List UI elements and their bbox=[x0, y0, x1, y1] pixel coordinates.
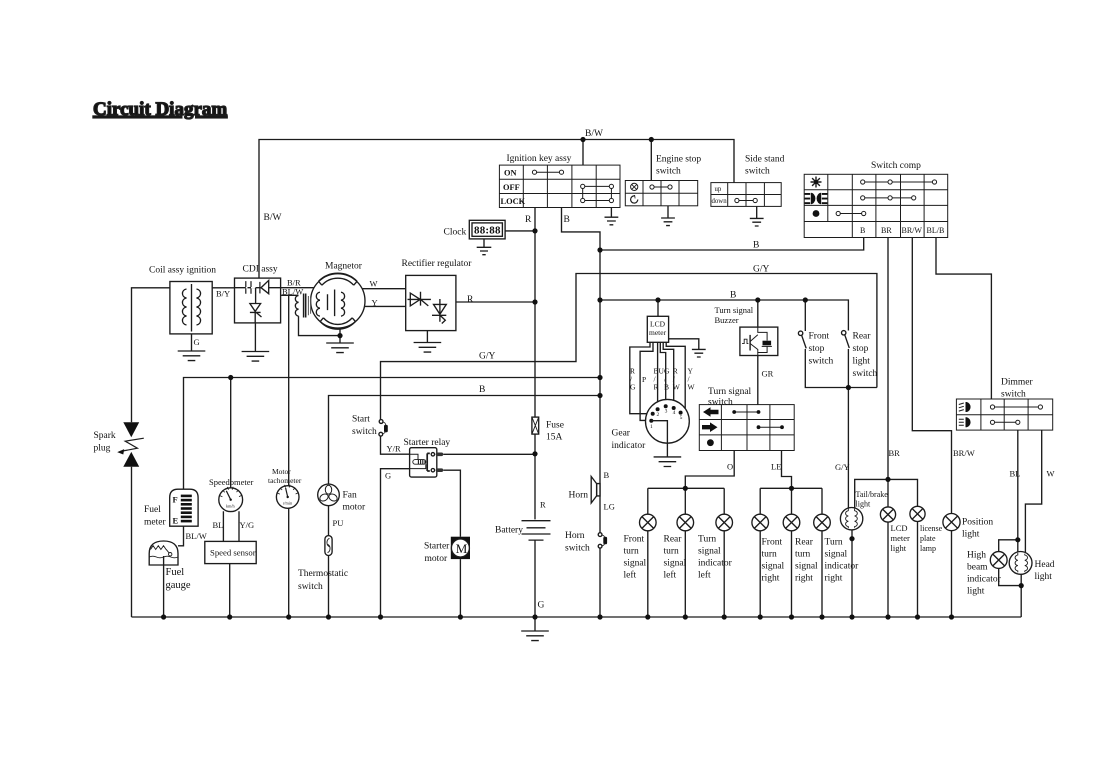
svg-text:High: High bbox=[967, 551, 986, 561]
svg-text:BR: BR bbox=[881, 226, 892, 235]
clock bbox=[469, 220, 505, 239]
svg-text:Gear: Gear bbox=[612, 429, 631, 439]
start switch bbox=[379, 420, 388, 437]
svg-text:turn: turn bbox=[762, 550, 778, 560]
svg-text:switch: switch bbox=[708, 398, 733, 408]
LCD meter wires to gear indicator bbox=[630, 342, 685, 420]
turn signal indicator right lamp bbox=[814, 514, 831, 531]
engine stop switch ground bbox=[661, 206, 675, 226]
svg-text:signal: signal bbox=[825, 550, 848, 560]
wire G/Y from stop switches to start switch bbox=[381, 274, 877, 421]
svg-text:B: B bbox=[753, 241, 759, 251]
svg-text:BL: BL bbox=[1010, 469, 1021, 479]
svg-text:signal: signal bbox=[698, 547, 721, 557]
svg-text:meter: meter bbox=[649, 328, 667, 337]
svg-text:G: G bbox=[538, 601, 545, 611]
svg-text:Rear: Rear bbox=[853, 332, 872, 342]
svg-text:light: light bbox=[967, 587, 985, 597]
rectifier regulator bbox=[406, 275, 456, 330]
svg-text:switch: switch bbox=[352, 427, 377, 437]
svg-text:Y: Y bbox=[372, 298, 378, 308]
svg-text:meter: meter bbox=[891, 533, 911, 543]
svg-text:signal: signal bbox=[762, 562, 785, 572]
CDI assy bbox=[235, 278, 281, 323]
svg-text:Tail/brake: Tail/brake bbox=[856, 490, 889, 499]
svg-text:Start: Start bbox=[352, 415, 370, 425]
wire W magnetor to rectifier bbox=[340, 288, 406, 290]
turn signal switch off symbol bbox=[707, 439, 714, 446]
svg-text:LG: LG bbox=[604, 502, 615, 512]
switch comp off symbol bbox=[813, 210, 820, 217]
label G/B bbox=[664, 367, 670, 392]
turn signal buzzer bbox=[740, 327, 778, 355]
svg-text:Switch comp: Switch comp bbox=[871, 161, 921, 171]
wire stop switches lower box and G/Y to tail light bbox=[805, 349, 877, 508]
svg-text:light: light bbox=[891, 543, 907, 553]
svg-text:Starter: Starter bbox=[424, 542, 450, 552]
wire tail light to bus bbox=[851, 530, 853, 617]
wire battery to ground bus bbox=[534, 540, 536, 631]
svg-text:beam: beam bbox=[967, 563, 988, 573]
svg-text:E: E bbox=[173, 516, 179, 526]
svg-text:W: W bbox=[370, 279, 378, 289]
side stand switch ground bbox=[750, 206, 764, 226]
svg-text:G: G bbox=[630, 383, 636, 392]
motor tachometer bbox=[276, 485, 299, 509]
switch comp lights-on symbol bbox=[811, 177, 822, 188]
title: Circuit Diagram bbox=[93, 99, 227, 120]
svg-text:B: B bbox=[564, 215, 570, 225]
svg-text:R: R bbox=[654, 383, 659, 392]
svg-text:4: 4 bbox=[673, 410, 676, 416]
clock ground bbox=[477, 239, 492, 255]
svg-text:Head: Head bbox=[1035, 560, 1055, 570]
svg-text:Position: Position bbox=[962, 518, 993, 528]
svg-text:Rear: Rear bbox=[664, 535, 683, 545]
fan motor bbox=[318, 484, 340, 506]
rear turn signal right lamp bbox=[783, 514, 800, 531]
wire B to LCD meter, buzzer, stop switches (y=300) bbox=[600, 300, 848, 331]
ignition key assy switch table bbox=[499, 165, 620, 207]
svg-text:BL: BL bbox=[213, 520, 224, 530]
svg-text:88:88: 88:88 bbox=[474, 225, 501, 237]
svg-text:Turn signal: Turn signal bbox=[708, 387, 752, 397]
svg-text:LE: LE bbox=[771, 462, 781, 472]
front turn signal left lamp bbox=[640, 514, 657, 531]
gear indicator ground bbox=[654, 457, 682, 467]
svg-text:G/Y: G/Y bbox=[835, 462, 850, 472]
svg-text:Y/G: Y/G bbox=[240, 520, 255, 530]
svg-text:right: right bbox=[762, 574, 780, 584]
svg-text:Side stand: Side stand bbox=[745, 155, 785, 165]
svg-text:switch: switch bbox=[745, 167, 770, 177]
svg-text:Motor: Motor bbox=[272, 467, 291, 476]
svg-text:LOCK: LOCK bbox=[501, 197, 526, 206]
wire BL/B switch comp to dimmer switch bbox=[936, 238, 991, 400]
ground bus bottom bbox=[132, 616, 1022, 618]
fuel gauge bbox=[149, 541, 178, 565]
speed sensor bbox=[205, 541, 256, 563]
svg-text:Speedometer: Speedometer bbox=[209, 477, 254, 487]
svg-text:turn: turn bbox=[624, 547, 640, 557]
svg-text:switch: switch bbox=[656, 167, 681, 177]
svg-text:left: left bbox=[698, 570, 711, 581]
wire B net (key col3 down, long B buses) bbox=[562, 208, 601, 618]
svg-text:indicator: indicator bbox=[612, 441, 647, 451]
wire head light / high beam bottoms to bus bbox=[999, 568, 1022, 617]
wire W dimmer to head light bbox=[1025, 430, 1041, 553]
svg-text:G: G bbox=[194, 337, 200, 347]
svg-text:B/Y: B/Y bbox=[216, 289, 230, 299]
svg-text:down: down bbox=[712, 198, 728, 205]
dimmer high beam symbol bbox=[966, 402, 971, 412]
wire R net (key col2 / clock / rectifier / fuse / battery) bbox=[443, 208, 535, 520]
svg-text:LCD: LCD bbox=[891, 523, 908, 533]
coil assy ground bbox=[178, 334, 206, 361]
svg-text:light: light bbox=[962, 530, 980, 540]
svg-text:Turn: Turn bbox=[698, 535, 716, 545]
switch comp table bbox=[804, 174, 948, 237]
fuel meter bbox=[170, 489, 198, 526]
svg-text:B/W: B/W bbox=[585, 129, 603, 139]
svg-text:Rear: Rear bbox=[795, 538, 814, 548]
svg-text:light: light bbox=[853, 357, 871, 367]
wire B gauge feed (y=377.5) bbox=[184, 378, 601, 490]
side stand switch table bbox=[711, 183, 781, 207]
wire right turn lamps distribution bbox=[760, 488, 822, 617]
svg-text:Spark: Spark bbox=[94, 431, 116, 441]
svg-text:meter: meter bbox=[144, 518, 166, 528]
svg-text:B: B bbox=[604, 470, 610, 480]
svg-text:Speed sensor: Speed sensor bbox=[210, 548, 256, 558]
svg-text:Fuel: Fuel bbox=[166, 567, 185, 578]
svg-text:left: left bbox=[624, 570, 637, 581]
ignition key assy ground bbox=[605, 208, 619, 225]
svg-text:Fan: Fan bbox=[343, 491, 358, 501]
battery bbox=[522, 454, 551, 540]
LCD meter bbox=[647, 316, 668, 342]
tail/brake light bbox=[840, 508, 862, 530]
svg-text:plate: plate bbox=[920, 534, 936, 543]
svg-text:turn: turn bbox=[795, 550, 811, 560]
svg-text:r/min: r/min bbox=[283, 501, 293, 506]
svg-text:tachometer: tachometer bbox=[268, 476, 302, 485]
svg-text:motor: motor bbox=[343, 503, 367, 513]
wire G relay to ground bus bbox=[381, 469, 410, 617]
svg-text:W: W bbox=[673, 383, 681, 392]
svg-text:Clock: Clock bbox=[444, 228, 467, 238]
svg-text:Front: Front bbox=[762, 538, 783, 548]
svg-text:signal: signal bbox=[795, 562, 818, 572]
svg-text:BR: BR bbox=[889, 448, 901, 458]
svg-text:Magnetor: Magnetor bbox=[325, 262, 363, 272]
svg-text:BL/B: BL/B bbox=[927, 226, 945, 235]
svg-text:light: light bbox=[856, 500, 871, 509]
svg-text:R: R bbox=[467, 295, 474, 305]
svg-text:3: 3 bbox=[665, 409, 668, 415]
wire left turn lamps distribution bbox=[648, 488, 724, 617]
rear turn signal left lamp bbox=[677, 514, 694, 531]
starter motor bbox=[451, 537, 470, 559]
svg-text:2: 2 bbox=[657, 412, 660, 418]
svg-text:M: M bbox=[456, 541, 468, 556]
svg-text:Starter relay: Starter relay bbox=[404, 438, 451, 448]
wire buzzer to turn signal switch (GR) bbox=[757, 354, 759, 404]
wire starter relay to starter motor bbox=[443, 470, 460, 617]
svg-text:switch: switch bbox=[565, 544, 590, 554]
dimmer switch table bbox=[956, 399, 1052, 430]
turn signal indicator left lamp bbox=[716, 514, 733, 531]
wire fuel meter to fuel gauge, gauge to bus bbox=[164, 526, 184, 617]
wire B/Y coil to CDI bbox=[212, 287, 234, 289]
LCD meter light lamp bbox=[880, 507, 895, 522]
svg-text:right: right bbox=[795, 574, 813, 584]
svg-text:light: light bbox=[1035, 572, 1053, 582]
wire B/W kill line (CDI to ignition key, engine stop, side stand) bbox=[259, 140, 734, 279]
svg-text:lamp: lamp bbox=[920, 544, 936, 553]
svg-text:O: O bbox=[727, 462, 733, 472]
spark plug bbox=[117, 422, 144, 467]
coil assy ignition bbox=[170, 282, 212, 334]
svg-text:BR/W: BR/W bbox=[953, 448, 975, 458]
svg-text:indicator: indicator bbox=[698, 559, 733, 569]
wire magnetor internal grounds bbox=[299, 316, 341, 343]
svg-text:switch: switch bbox=[853, 369, 878, 379]
svg-text:Fuse: Fuse bbox=[546, 421, 564, 431]
svg-text:Front: Front bbox=[624, 535, 645, 545]
svg-text:stop: stop bbox=[809, 344, 825, 354]
svg-text:license: license bbox=[920, 524, 943, 533]
svg-text:B/W: B/W bbox=[264, 213, 282, 223]
engine stop switch table bbox=[625, 181, 697, 206]
wire spark plug / coil assy primary bbox=[132, 288, 170, 617]
label R/W bbox=[673, 367, 681, 392]
fuse 15A bbox=[532, 417, 539, 434]
svg-text:Turn: Turn bbox=[825, 538, 843, 548]
wire Y/R start switch to relay coil bbox=[381, 436, 410, 455]
head light bbox=[1009, 552, 1032, 575]
speedometer bbox=[219, 487, 243, 512]
turn signal switch right-arrow symbol bbox=[702, 422, 718, 432]
svg-text:P: P bbox=[642, 375, 646, 384]
wire fan motor / thermostatic switch to bus bbox=[328, 505, 330, 617]
svg-text:B: B bbox=[664, 383, 669, 392]
svg-text:Thermostatic: Thermostatic bbox=[298, 569, 348, 579]
wire speedometer to speed sensor to bus bbox=[223, 511, 239, 617]
turn signal switch table bbox=[699, 405, 794, 451]
horn switch bbox=[598, 533, 607, 548]
label LCD meter wires R/G bbox=[630, 367, 636, 392]
wire turn signal switch left output O bbox=[685, 451, 734, 489]
svg-text:switch: switch bbox=[1001, 390, 1026, 400]
svg-text:W: W bbox=[1047, 469, 1055, 479]
LCD meter ground wire bbox=[669, 339, 706, 357]
svg-text:PU: PU bbox=[333, 518, 344, 528]
svg-text:1: 1 bbox=[650, 424, 653, 430]
wire B fan/start feed (y=395.5) bbox=[329, 396, 601, 485]
thermostatic switch bbox=[325, 536, 332, 556]
CDI assy ground bbox=[242, 323, 270, 361]
switch comp headlight symbol bbox=[805, 193, 828, 204]
wire BL/W CDI to pickup coil and motor tachometer bbox=[281, 295, 299, 617]
svg-text:F: F bbox=[173, 495, 178, 505]
wire B/R CDI to magnetor winding bbox=[281, 288, 320, 293]
svg-text:Coil assy ignition: Coil assy ignition bbox=[149, 266, 216, 276]
svg-text:Horn: Horn bbox=[565, 531, 585, 541]
svg-text:indicator: indicator bbox=[825, 562, 860, 572]
rectifier regulator ground bbox=[414, 331, 442, 353]
svg-text:switch: switch bbox=[298, 582, 323, 592]
svg-text:Dimmer: Dimmer bbox=[1001, 378, 1033, 388]
svg-text:R: R bbox=[525, 215, 532, 225]
high beam indicator light lamp bbox=[990, 552, 1007, 569]
svg-text:G/Y: G/Y bbox=[753, 265, 770, 275]
svg-text:Engine stop: Engine stop bbox=[656, 155, 701, 165]
label BU/R bbox=[654, 367, 665, 392]
horn bbox=[591, 477, 600, 504]
front turn signal right lamp bbox=[752, 514, 769, 531]
svg-text:Battery: Battery bbox=[495, 526, 523, 536]
main ground under battery bbox=[521, 631, 549, 641]
wire LCD meter light / license plate lamp bottoms bbox=[888, 521, 918, 617]
svg-text:B: B bbox=[860, 226, 865, 235]
svg-text:B: B bbox=[479, 385, 485, 395]
svg-text:BR/W: BR/W bbox=[902, 226, 923, 235]
dimmer low beam symbol bbox=[966, 417, 971, 427]
wire BR/W from switch comp to position light bbox=[912, 238, 951, 618]
svg-text:GR: GR bbox=[762, 369, 774, 379]
svg-text:up: up bbox=[715, 186, 722, 193]
starter relay bbox=[410, 448, 444, 477]
wire BL dimmer to head light and high beam indicator bbox=[999, 430, 1018, 552]
position light lamp bbox=[943, 514, 960, 531]
svg-text:W: W bbox=[688, 383, 696, 392]
svg-text:G/Y: G/Y bbox=[479, 352, 496, 362]
license plate lamp bbox=[910, 506, 925, 521]
wire BR from switch comp to tail/LCD light/license lamps bbox=[855, 238, 918, 509]
svg-text:R: R bbox=[540, 500, 546, 510]
magnetor ground bbox=[326, 343, 354, 353]
svg-text:CDI assy: CDI assy bbox=[243, 265, 278, 275]
svg-text:BL/W: BL/W bbox=[186, 531, 207, 541]
wire turn signal switch right output LE bbox=[782, 451, 792, 489]
svg-text:5: 5 bbox=[680, 415, 683, 421]
component and wire labels bbox=[94, 129, 1055, 611]
svg-text:signal: signal bbox=[624, 559, 647, 569]
magnetor pickup coil bbox=[295, 294, 310, 318]
svg-text:signal: signal bbox=[664, 559, 687, 569]
wire Y magnetor to rectifier bbox=[341, 305, 406, 307]
svg-text:B: B bbox=[730, 291, 736, 301]
svg-text:Y/R: Y/R bbox=[387, 444, 402, 454]
svg-text:Turn signal: Turn signal bbox=[715, 305, 754, 315]
svg-text:turn: turn bbox=[664, 547, 680, 557]
svg-text:Fuel: Fuel bbox=[144, 505, 161, 515]
svg-text:switch: switch bbox=[809, 357, 834, 367]
svg-text:plug: plug bbox=[94, 444, 111, 454]
svg-text:Horn: Horn bbox=[569, 491, 589, 501]
svg-text:right: right bbox=[825, 574, 843, 584]
svg-text:Rectifier regulator: Rectifier regulator bbox=[402, 258, 473, 269]
svg-text:Circuit Diagram: Circuit Diagram bbox=[93, 99, 227, 120]
rear stop light switch bbox=[842, 331, 850, 348]
svg-text:OFF: OFF bbox=[503, 183, 520, 192]
svg-text:Ignition key assy: Ignition key assy bbox=[507, 154, 572, 164]
svg-text:motor: motor bbox=[425, 554, 449, 564]
svg-text:km/h: km/h bbox=[226, 504, 236, 509]
gear indicator bbox=[646, 399, 690, 457]
turn signal switch left-arrow symbol bbox=[703, 407, 719, 417]
magnetor bbox=[311, 273, 365, 329]
label Y/W bbox=[688, 367, 696, 392]
svg-text:indicator: indicator bbox=[967, 575, 1002, 585]
svg-text:Front: Front bbox=[809, 332, 830, 342]
wire B to switch comp (y=250) bbox=[600, 238, 864, 251]
front stop switch bbox=[798, 331, 806, 348]
svg-text:BL/W: BL/W bbox=[282, 287, 303, 297]
svg-text:gauge: gauge bbox=[166, 580, 191, 591]
svg-text:ON: ON bbox=[504, 169, 517, 178]
svg-text:left: left bbox=[664, 570, 677, 581]
svg-text:Buzzer: Buzzer bbox=[715, 315, 739, 325]
svg-text:stop: stop bbox=[853, 344, 869, 354]
svg-text:G: G bbox=[385, 471, 391, 481]
svg-text:15A: 15A bbox=[546, 433, 563, 443]
